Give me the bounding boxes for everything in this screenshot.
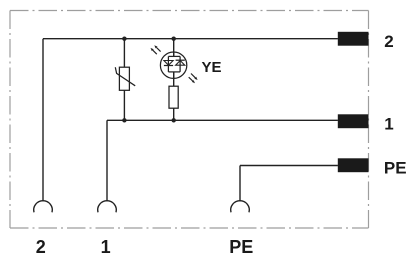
wire: varistor branch top [123, 39, 125, 67]
LED left diode (cathode down) [164, 61, 173, 66]
wire: LED branch top [173, 39, 175, 57]
svg-text:YE: YE [202, 59, 222, 76]
wire: resistor to net 1 [173, 108, 175, 120]
bottom contact PE (socket arc) [231, 201, 250, 213]
housing outline (dash-dot) [10, 11, 369, 229]
svg-text:PE: PE [229, 237, 253, 257]
pin PE (black pad) [338, 158, 369, 172]
junction: LED branch / net 2 [172, 37, 176, 41]
wire: riser to bottom contact 2 [42, 39, 44, 202]
varistor body [119, 67, 129, 90]
resistor body [169, 86, 178, 108]
svg-text:2: 2 [36, 237, 46, 257]
varistor stroke symbol [115, 67, 135, 86]
LED light arrow upper-left 2 [154, 45, 160, 51]
wire: LED to resistor [173, 72, 175, 86]
LED light arrow lower-right 2 [189, 77, 195, 83]
LED light arrow upper-left 1 [151, 48, 157, 54]
wire: riser to bottom contact 1 [106, 120, 108, 201]
svg-text:PE: PE [384, 158, 407, 177]
pin 1 (black pad) [338, 114, 369, 128]
junction: varistor / net 2 [122, 37, 126, 41]
wire: PE horizontal to pin PE [240, 165, 338, 167]
svg-text:1: 1 [384, 114, 393, 133]
LED inner bridge rails and legs [168, 52, 180, 78]
wire: net 1 horizontal to pin 1 [107, 119, 338, 121]
svg-text:2: 2 [384, 32, 393, 51]
wire: varistor branch bottom [123, 90, 125, 120]
LED light arrow lower-right 1 [191, 74, 198, 81]
junction: resistor / net 1 [172, 118, 176, 122]
bottom contact 2 (socket arc) [34, 201, 53, 213]
LED right diode (cathode up) [176, 60, 185, 65]
bottom contact 1 (socket arc) [98, 201, 117, 213]
junction: varistor / net 1 [122, 118, 126, 122]
LED circle [160, 52, 186, 78]
pin 2 (black pad) [338, 32, 369, 46]
wire: top net from contact 2 riser to pin 2 [43, 38, 338, 40]
svg-text:1: 1 [101, 237, 111, 257]
wire: riser to bottom contact PE [239, 166, 241, 202]
